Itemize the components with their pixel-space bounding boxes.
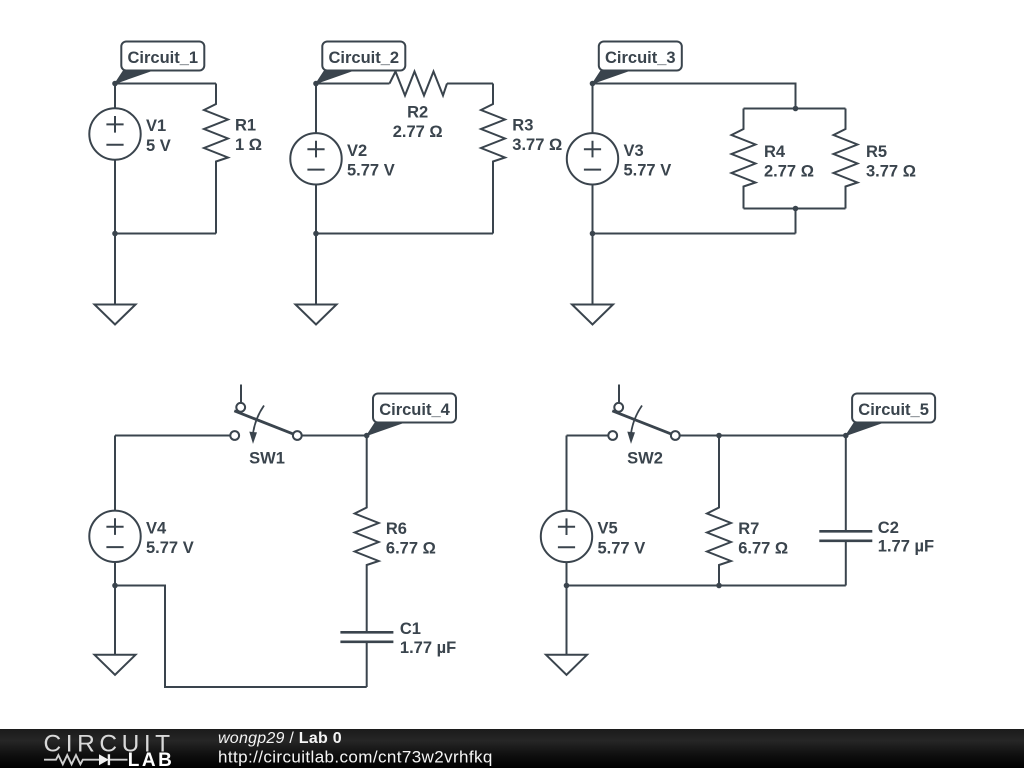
svg-text:R3: R3: [512, 116, 533, 134]
wire: circuit 2 top-left segment: [316, 83, 390, 85]
svg-text:SW1: SW1: [249, 450, 285, 468]
voltage source V5 (5.77 V): [541, 436, 645, 586]
svg-text:wongp29 / Lab 0: wongp29 / Lab 0: [218, 730, 342, 747]
node: circuit 3 top-left junction: [590, 81, 596, 87]
svg-text:2.77 Ω: 2.77 Ω: [764, 162, 814, 180]
svg-text:R6: R6: [386, 520, 407, 538]
svg-text:Circuit_4: Circuit_4: [379, 401, 450, 419]
ground: circuit 4: [95, 586, 136, 675]
svg-text:2.77 Ω: 2.77 Ω: [393, 123, 443, 141]
wire: circuit 3 parallel bottom bus: [744, 208, 846, 210]
wire: circuit 4 top-left segment: [115, 435, 230, 437]
ground: circuit 1: [95, 234, 136, 325]
wire: circuit 2 bottom rail: [316, 233, 493, 235]
svg-text:R4: R4: [764, 143, 786, 161]
resistor R1 (1 Ω): [204, 84, 262, 234]
wire: circuit 5 switch-to-corner segment: [680, 435, 846, 437]
capacitor C1 (1.77 µF): [340, 620, 456, 687]
wire: circuit 3 parallel top bus: [744, 108, 846, 110]
resistor R7 (6.77 Ω): [707, 436, 788, 586]
resistor R3 (3.77 Ω): [481, 84, 562, 234]
svg-text:R7: R7: [738, 520, 759, 538]
svg-text:Circuit_3: Circuit_3: [605, 49, 676, 67]
wire: circuit 3 mid link: [795, 209, 797, 234]
CircuitLab logo resistor-diode glyph: [44, 754, 128, 765]
svg-text:1.77 µF: 1.77 µF: [400, 639, 456, 657]
voltage source V2 (5.77 V): [290, 84, 394, 234]
node: circuit 3 parallel bottom junction: [793, 206, 799, 212]
node: circuit 4 switch output junction: [364, 433, 370, 439]
voltage source V4 (5.77 V): [89, 436, 193, 586]
svg-text:3.77 Ω: 3.77 Ω: [512, 136, 562, 154]
node: circuit 3 parallel top junction: [793, 106, 799, 112]
label callout Circuit_3: [593, 42, 682, 84]
wire: circuit 5 top-left segment: [567, 435, 609, 437]
wire: circuit 3 bottom rail: [593, 233, 796, 235]
node: circuit 5 bottom R7 junction: [716, 583, 722, 589]
node: circuit 2 bottom junction: [313, 231, 319, 237]
svg-text:R2: R2: [407, 104, 428, 122]
svg-text:V4: V4: [146, 519, 167, 537]
svg-text:5.77 V: 5.77 V: [598, 539, 646, 557]
node: circuit 5 switch output junction (R7 top): [716, 433, 722, 439]
label callout Circuit_5: [846, 394, 935, 436]
svg-text:5.77 V: 5.77 V: [347, 162, 395, 180]
label callout Circuit_4: [367, 394, 456, 436]
wire: circuit 3 top rail: [593, 84, 796, 109]
svg-text:1.77 µF: 1.77 µF: [878, 538, 934, 556]
svg-text:6.77 Ω: 6.77 Ω: [386, 539, 436, 557]
resistor R5 (3.77 Ω): [834, 109, 916, 209]
wire: circuit 4 switch-to-node segment: [302, 435, 367, 437]
node: circuit 3 bottom-left junction: [590, 231, 596, 237]
node: circuit 2 top-left junction: [313, 81, 319, 87]
label callout Circuit_2: [316, 42, 405, 84]
ground: circuit 3: [572, 234, 613, 325]
svg-text:Circuit_2: Circuit_2: [328, 49, 399, 67]
svg-text:C2: C2: [878, 519, 899, 537]
node: circuit 4 bottom junction: [112, 583, 118, 589]
svg-text:Circuit_1: Circuit_1: [127, 49, 198, 67]
svg-text:5 V: 5 V: [146, 137, 171, 155]
ground: circuit 5: [546, 586, 587, 675]
resistor R6 (6.77 Ω): [355, 436, 436, 633]
capacitor C2 (1.77 µF): [819, 436, 934, 586]
svg-text:V3: V3: [624, 142, 644, 160]
svg-text:6.77 Ω: 6.77 Ω: [738, 539, 788, 557]
ground: circuit 2: [296, 234, 337, 325]
svg-text:R1: R1: [235, 116, 256, 134]
resistor R2 (2.77 Ω) horizontal: [390, 72, 448, 142]
wire: circuit 1 top rail: [115, 83, 216, 85]
svg-text:V5: V5: [598, 519, 618, 537]
switch SW1: [230, 385, 301, 468]
resistor R4 (2.77 Ω): [732, 109, 814, 209]
svg-text:http://circuitlab.com/cnt73w2v: http://circuitlab.com/cnt73w2vrhfkq: [218, 747, 493, 766]
voltage source V3 (5.77 V): [567, 84, 671, 234]
svg-text:V2: V2: [347, 142, 367, 160]
svg-text:R5: R5: [866, 143, 887, 161]
svg-text:5.77 V: 5.77 V: [146, 539, 194, 557]
svg-text:Circuit_5: Circuit_5: [858, 401, 929, 419]
svg-text:5.77 V: 5.77 V: [624, 162, 672, 180]
switch SW2: [608, 385, 679, 468]
node: circuit 1 bottom junction: [112, 231, 118, 237]
node: circuit 5 bottom-left junction: [564, 583, 570, 589]
svg-text:SW2: SW2: [627, 450, 663, 468]
svg-text:LAB: LAB: [128, 750, 175, 768]
label callout Circuit_1: [115, 42, 204, 84]
wire: circuit 2 top-right segment: [447, 83, 493, 85]
svg-text:C1: C1: [400, 620, 421, 638]
svg-text:1 Ω: 1 Ω: [235, 136, 262, 154]
voltage source V1 (5 V): [89, 84, 170, 234]
node: circuit 5 top-right junction (C2 top): [843, 433, 849, 439]
wire: circuit 5 bottom rail: [567, 585, 846, 587]
svg-text:V1: V1: [146, 117, 166, 135]
wire: circuit 4 bottom return: [115, 586, 367, 688]
wire: circuit 1 bottom rail: [115, 233, 216, 235]
node: circuit 1 top-left junction: [112, 81, 118, 87]
svg-text:3.77 Ω: 3.77 Ω: [866, 162, 916, 180]
